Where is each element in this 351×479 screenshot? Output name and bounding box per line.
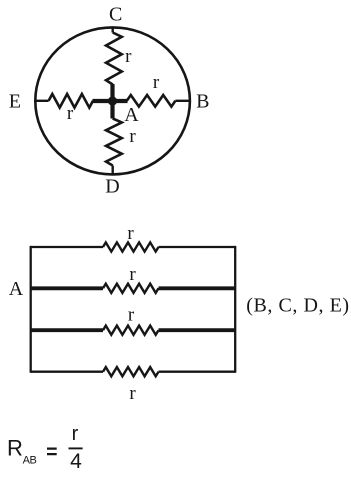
wire left vertical (node A bus) xyxy=(30,246,32,373)
resistor r (C branch) xyxy=(106,33,122,85)
wire row 4 right xyxy=(159,371,236,373)
wire resistor to B xyxy=(175,100,190,102)
wire C to resistor xyxy=(111,27,113,33)
resistor r (row 4) xyxy=(103,367,159,376)
wire (thick, node A horizontal) xyxy=(93,99,128,103)
resistor r (E branch) xyxy=(49,94,93,108)
svg-text:r: r xyxy=(127,223,134,244)
wire row 1 right xyxy=(159,246,236,248)
resistor r (row 2) xyxy=(103,284,159,293)
svg-text:B: B xyxy=(196,90,209,112)
svg-text:r: r xyxy=(125,46,132,67)
wire row 4 left xyxy=(31,371,103,373)
svg-text:AB: AB xyxy=(23,455,37,467)
svg-text:(B, C, D, E): (B, C, D, E) xyxy=(246,295,349,317)
svg-text:r: r xyxy=(67,103,74,124)
wire row 2 right xyxy=(159,286,236,290)
svg-text:r: r xyxy=(153,72,160,93)
svg-text:r: r xyxy=(72,423,79,445)
wire row 3 right xyxy=(159,328,236,332)
wire (thick, node A vertical) xyxy=(110,84,114,119)
wire E to resistor xyxy=(35,100,49,102)
resistor r (D branch) xyxy=(106,119,122,166)
wire row 1 left xyxy=(31,246,103,248)
resistor r (row 1) xyxy=(103,242,159,251)
svg-text:C: C xyxy=(109,3,122,25)
node A junction dot xyxy=(108,96,117,105)
wire right vertical (node B,C,D,E bus) xyxy=(234,246,236,373)
wire row 2 left xyxy=(31,286,103,290)
svg-text:D: D xyxy=(105,176,119,198)
svg-text:A: A xyxy=(9,278,24,300)
resistor r (row 3) xyxy=(103,326,159,335)
svg-text:4: 4 xyxy=(70,450,82,473)
svg-text:E: E xyxy=(9,90,21,112)
resistor r (B branch) xyxy=(127,95,176,107)
wire resistor to D xyxy=(111,166,113,176)
wire row 3 left xyxy=(31,328,103,332)
circle conductor loop xyxy=(35,27,190,174)
svg-text:r: r xyxy=(129,264,136,285)
svg-text:r: r xyxy=(128,305,135,326)
svg-text:r: r xyxy=(129,383,136,404)
svg-text:r: r xyxy=(129,126,136,147)
svg-text:R: R xyxy=(7,436,23,461)
formula fraction bar xyxy=(69,447,83,449)
formula equals sign xyxy=(47,449,57,455)
svg-text:A: A xyxy=(124,104,139,126)
